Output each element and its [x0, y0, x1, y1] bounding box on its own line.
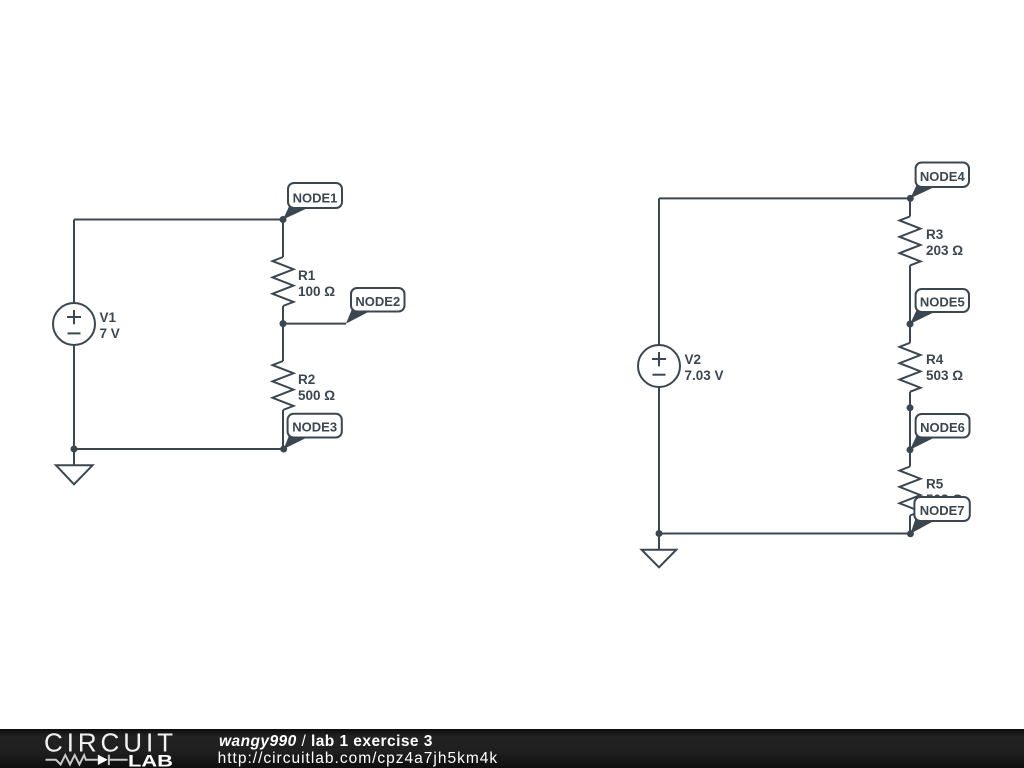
- ground symbol left circuit: [56, 449, 93, 484]
- junction dot node NODE6: [907, 446, 914, 453]
- junction dot node NODE7: [907, 530, 914, 537]
- svg-text:7 V: 7 V: [100, 326, 120, 341]
- wire R5 bottom stub: [909, 516, 911, 534]
- svg-text:NODE1: NODE1: [293, 190, 338, 205]
- voltage source V2: [638, 345, 680, 387]
- svg-text:NODE6: NODE6: [920, 420, 965, 435]
- wire right circuit top horizontal: [659, 197, 910, 199]
- V1 label and value text: [100, 310, 120, 341]
- svg-text:NODE5: NODE5: [920, 295, 965, 310]
- node flag NODE6: [910, 414, 970, 450]
- svg-text:NODE2: NODE2: [355, 294, 400, 309]
- svg-text:500 Ω: 500 Ω: [298, 388, 335, 403]
- svg-text:203 Ω: 203 Ω: [926, 243, 963, 258]
- wire R2 bottom stub: [282, 410, 284, 449]
- svg-text:R5: R5: [926, 477, 944, 492]
- wire NODE2 horizontal stub: [283, 323, 346, 325]
- wire right circuit left vertical lower: [658, 387, 660, 534]
- junction dot node NODE1: [280, 216, 287, 223]
- junction dot left circuit bottom-left: [71, 446, 78, 453]
- wire R1 top stub: [282, 220, 284, 258]
- svg-text:R4: R4: [926, 352, 944, 367]
- svg-text:NODE3: NODE3: [292, 420, 337, 435]
- R1 label and value text: [298, 268, 335, 299]
- junction dot node NODE4: [907, 195, 914, 202]
- svg-text:R2: R2: [298, 372, 315, 387]
- svg-text:V2: V2: [685, 352, 702, 367]
- resistor R2 zigzag: [273, 361, 294, 410]
- voltage source V1: [53, 303, 95, 345]
- R2 label and value text: [298, 372, 335, 403]
- node flag NODE2: [346, 288, 405, 324]
- ground symbol right circuit: [642, 534, 677, 568]
- junction dot node NODE3: [280, 446, 287, 453]
- svg-text:V1: V1: [100, 310, 117, 325]
- svg-text:R3: R3: [926, 227, 944, 242]
- R4 label and value text: [926, 352, 963, 383]
- svg-text:http://circuitlab.com/cpz4a7jh: http://circuitlab.com/cpz4a7jh5km4k: [218, 750, 498, 767]
- resistor R5 zigzag: [900, 467, 921, 516]
- resistor R4 zigzag: [900, 343, 921, 392]
- node flag NODE3: [284, 414, 342, 449]
- svg-text:R1: R1: [298, 268, 316, 283]
- node flag NODE5: [910, 289, 969, 324]
- svg-text:7.03 V: 7.03 V: [685, 368, 724, 383]
- logo diode triangle: [98, 755, 108, 765]
- svg-text:NODE7: NODE7: [920, 503, 965, 518]
- svg-text:LAB: LAB: [128, 753, 173, 768]
- junction dot node NODE2: [280, 320, 287, 327]
- junction dot between R4 and NODE6: [907, 404, 914, 411]
- wire left circuit left vertical upper: [73, 220, 75, 304]
- logo resistor-diode wire graphic: [46, 755, 128, 765]
- wire between R3 and R4 (through NODE5): [909, 265, 911, 342]
- R5 label and value text (value mostly hidden behind NODE7 flag): [926, 477, 963, 508]
- wire left circuit bottom horizontal: [74, 448, 284, 450]
- R3 label and value text: [926, 227, 963, 258]
- resistor R1 zigzag: [273, 257, 294, 306]
- junction dot node NODE5: [907, 321, 914, 328]
- resistor R3 zigzag: [900, 216, 921, 265]
- node flag NODE1: [283, 183, 342, 220]
- wire right circuit bottom horizontal: [659, 533, 910, 535]
- junction dot right circuit bottom-left: [656, 530, 663, 537]
- wire left circuit left vertical lower: [73, 345, 75, 449]
- wire right circuit left vertical upper: [658, 198, 660, 345]
- svg-text:wangy990 / lab 1 exercise 3: wangy990 / lab 1 exercise 3: [219, 733, 433, 750]
- svg-text:NODE4: NODE4: [920, 169, 966, 184]
- svg-text:503 Ω: 503 Ω: [926, 368, 963, 383]
- footer black bar: [0, 729, 1024, 768]
- node flag NODE7: [910, 497, 969, 534]
- wire between R4 and R5 (through junction and NODE6): [909, 392, 911, 467]
- V2 label and value text: [685, 352, 724, 383]
- wire between R1 and R2 (through NODE2): [282, 306, 284, 361]
- svg-text:100 Ω: 100 Ω: [298, 284, 335, 299]
- wire left circuit top horizontal: [74, 219, 283, 221]
- node flag NODE4: [910, 163, 969, 199]
- wire R3 top stub: [909, 198, 911, 216]
